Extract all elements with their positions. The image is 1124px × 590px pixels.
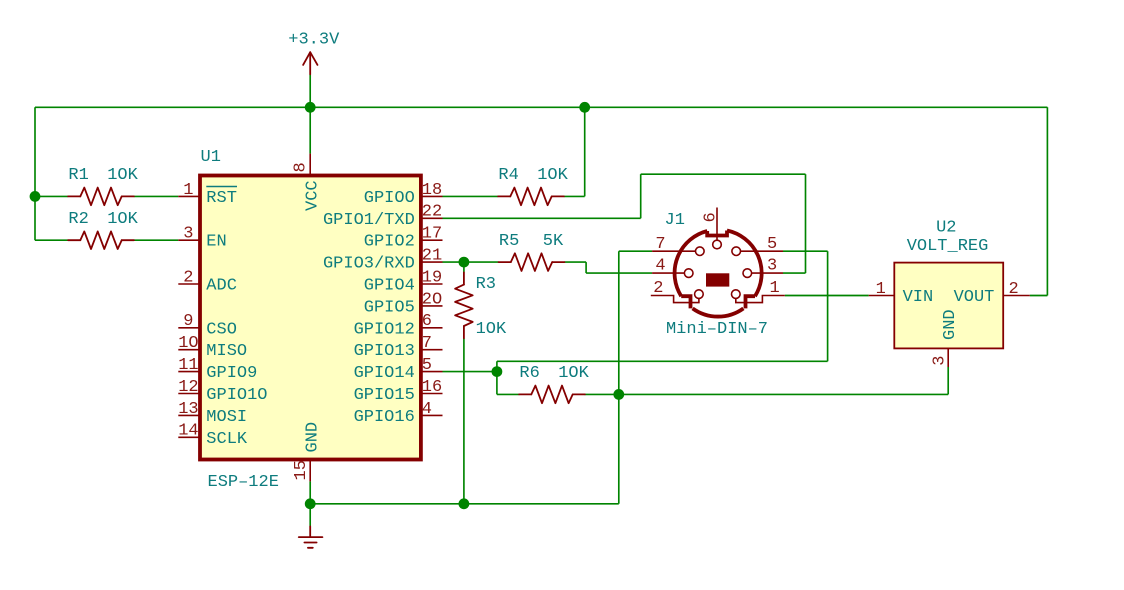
svg-text:1O: 1O <box>178 334 198 353</box>
svg-text:12: 12 <box>178 378 198 397</box>
svg-text:GPIO14: GPIO14 <box>354 364 415 383</box>
svg-text:15: 15 <box>292 460 311 480</box>
svg-text:1OK: 1OK <box>537 166 568 185</box>
svg-text:7: 7 <box>422 334 432 353</box>
svg-text:ESP–12E: ESP–12E <box>208 473 279 492</box>
svg-text:Mini–DIN–7: Mini–DIN–7 <box>666 320 768 339</box>
svg-text:3: 3 <box>183 225 193 244</box>
svg-text:19: 19 <box>422 268 442 287</box>
svg-text:1: 1 <box>183 181 193 200</box>
svg-text:SCLK: SCLK <box>206 430 248 449</box>
svg-text:13: 13 <box>178 400 198 419</box>
svg-text:3: 3 <box>931 356 950 366</box>
svg-text:4: 4 <box>422 400 432 419</box>
svg-text:GPIO13: GPIO13 <box>354 342 415 361</box>
svg-text:VOLT_REG: VOLT_REG <box>907 237 989 256</box>
svg-text:ADC: ADC <box>206 277 237 296</box>
svg-text:RST: RST <box>206 189 237 208</box>
svg-text:R4: R4 <box>498 166 518 185</box>
svg-text:16: 16 <box>422 378 442 397</box>
svg-text:22: 22 <box>422 203 442 222</box>
svg-text:U1: U1 <box>201 148 221 167</box>
svg-text:1OK: 1OK <box>107 210 138 229</box>
svg-text:1: 1 <box>770 279 780 298</box>
svg-text:GPIO3/RXD: GPIO3/RXD <box>323 255 415 274</box>
svg-text:9: 9 <box>183 312 193 331</box>
svg-text:1: 1 <box>876 280 886 299</box>
svg-text:5: 5 <box>767 235 777 254</box>
svg-text:GPIO15: GPIO15 <box>354 386 415 405</box>
svg-text:3: 3 <box>767 257 777 276</box>
svg-text:1OK: 1OK <box>558 364 589 383</box>
svg-text:1OK: 1OK <box>476 320 507 339</box>
svg-text:VCC: VCC <box>303 180 322 211</box>
svg-text:MISO: MISO <box>206 342 247 361</box>
svg-text:5: 5 <box>422 356 432 375</box>
svg-text:14: 14 <box>178 422 198 441</box>
svg-text:U2: U2 <box>936 219 956 238</box>
svg-text:MOSI: MOSI <box>206 408 247 427</box>
svg-text:R6: R6 <box>519 364 539 383</box>
svg-text:4: 4 <box>655 257 665 276</box>
svg-text:J1: J1 <box>665 211 685 230</box>
svg-text:GPIO1O: GPIO1O <box>206 386 267 405</box>
svg-text:CSO: CSO <box>206 320 237 339</box>
svg-text:GPIO12: GPIO12 <box>354 320 415 339</box>
svg-text:2: 2 <box>1008 280 1018 299</box>
svg-text:11: 11 <box>178 356 198 375</box>
svg-text:GND: GND <box>303 422 322 453</box>
svg-text:6: 6 <box>422 312 432 331</box>
svg-text:2O: 2O <box>422 290 442 309</box>
svg-text:21: 21 <box>422 247 442 266</box>
svg-text:GPIO4: GPIO4 <box>364 277 415 296</box>
svg-text:17: 17 <box>422 225 442 244</box>
svg-text:GPIO9: GPIO9 <box>206 364 257 383</box>
svg-text:GPIO1/TXD: GPIO1/TXD <box>323 211 415 230</box>
svg-text:EN: EN <box>206 233 226 252</box>
svg-text:VOUT: VOUT <box>954 288 995 307</box>
svg-text:GPIOO: GPIOO <box>364 189 415 208</box>
svg-text:R1: R1 <box>68 166 88 185</box>
svg-text:2: 2 <box>183 268 193 287</box>
svg-text:+3.3V: +3.3V <box>288 31 340 50</box>
svg-text:R2: R2 <box>68 210 88 229</box>
svg-text:R3: R3 <box>476 275 496 294</box>
svg-text:8: 8 <box>292 162 311 172</box>
svg-text:1OK: 1OK <box>107 166 138 185</box>
svg-text:R5: R5 <box>499 232 519 251</box>
svg-text:GPIO16: GPIO16 <box>354 408 415 427</box>
svg-text:2: 2 <box>653 279 663 298</box>
svg-text:GPIO2: GPIO2 <box>364 233 415 252</box>
svg-text:GND: GND <box>941 309 960 340</box>
svg-text:7: 7 <box>655 235 665 254</box>
svg-text:GPIO5: GPIO5 <box>364 298 415 317</box>
svg-text:5K: 5K <box>543 232 564 251</box>
svg-text:VIN: VIN <box>903 288 934 307</box>
svg-text:18: 18 <box>422 181 442 200</box>
svg-text:6: 6 <box>701 212 720 222</box>
